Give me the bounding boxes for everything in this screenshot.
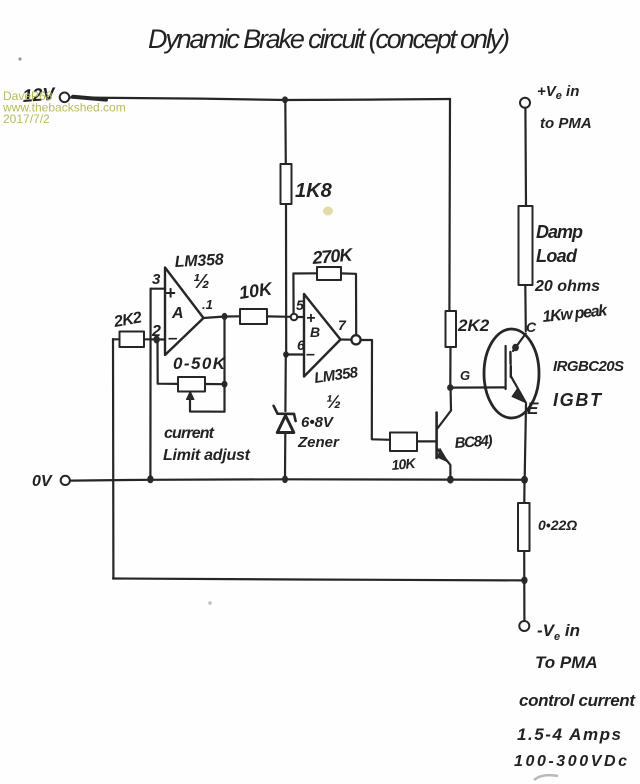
- zener D1 triangle: [277, 416, 294, 433]
- wire 2K2 right lead to pin2: [144, 338, 165, 340]
- svg-text:2K2: 2K2: [457, 316, 490, 335]
- wire bottom return: [113, 579, 524, 581]
- pot wiper arrowhead: [186, 392, 194, 400]
- svg-text:Limit adjust: Limit adjust: [163, 447, 251, 464]
- wire emitter node to 0.22: [523, 480, 525, 503]
- IGBT Q1 gate bar: [505, 346, 507, 389]
- svg-text:To PMA: To PMA: [535, 653, 598, 672]
- wire 10K to pin5: [267, 315, 291, 318]
- svg-text:C: C: [526, 319, 537, 335]
- node bottom wire junction: [521, 577, 527, 585]
- wire pin7 output right and down: [361, 340, 390, 440]
- wire pin3 lead: [151, 288, 165, 290]
- wire 2K2 to gate node: [449, 347, 451, 385]
- svg-text:3: 3: [152, 271, 161, 288]
- resistor 10K top: [240, 309, 267, 324]
- IGBT collector blob: [512, 344, 519, 352]
- node 0V igbt emitter: [521, 476, 528, 484]
- svg-text:½: ½: [326, 392, 341, 412]
- wire pin1 output: [204, 317, 225, 319]
- potentiometer 0-50K: [178, 377, 205, 392]
- wire pin6: [286, 353, 304, 355]
- svg-text:IRGBC20S: IRGBC20S: [553, 358, 624, 375]
- svg-text:0-50K: 0-50K: [173, 354, 227, 373]
- svg-text:2: 2: [151, 323, 161, 340]
- svg-text:.1: .1: [202, 297, 213, 312]
- node pin7 output circle: [351, 335, 360, 344]
- speck mid left: [208, 601, 212, 605]
- svg-text:Load: Load: [536, 246, 578, 266]
- svg-text:Zener: Zener: [297, 434, 340, 451]
- terminal 12V open circle: [60, 93, 70, 103]
- wire pot right lead: [205, 383, 225, 385]
- wire emitter down to 0V: [525, 405, 526, 478]
- svg-text:0•22Ω: 0•22Ω: [538, 517, 577, 533]
- svg-text:100-300VDc: 100-300VDc: [514, 753, 627, 770]
- node 0V x150: [147, 475, 153, 483]
- terminal -Ve open circle: [519, 621, 529, 631]
- terminal 0V open circle: [61, 476, 70, 485]
- wire pot right vertical up to pin1: [223, 317, 225, 385]
- svg-text:–: –: [168, 328, 178, 347]
- svg-text:–: –: [306, 346, 315, 363]
- node pin2 junction: [153, 336, 159, 344]
- svg-text:control current: control current: [519, 691, 636, 710]
- wire top rail thick blob: [73, 97, 106, 100]
- terminal +Ve open circle: [520, 98, 530, 108]
- wire right top vertical to 2K2: [448, 99, 451, 311]
- svg-text:1.5-4 Amps: 1.5-4 Amps: [517, 725, 621, 744]
- svg-text:5: 5: [296, 297, 304, 313]
- IGBT collector diagonal: [513, 334, 526, 352]
- wire zener top lead: [284, 355, 287, 412]
- transistor Q2 BC847 base bar: [435, 413, 438, 459]
- node pin1 junction: [222, 313, 228, 320]
- wire top rail 12V: [71, 98, 451, 101]
- svg-text:E: E: [527, 399, 539, 418]
- wire damp load to collector: [524, 285, 527, 331]
- svg-text:2K2: 2K2: [112, 309, 144, 331]
- smudge bottom pencil mark: [534, 775, 558, 780]
- wire 1K8 top lead: [284, 100, 287, 164]
- svg-text:B: B: [310, 324, 320, 340]
- IGBT inner bar: [509, 352, 512, 377]
- IGBT emitter diagonal: [511, 376, 526, 403]
- node pin6 junction: [283, 351, 289, 357]
- IGBT Q1 body circle: [484, 329, 539, 418]
- wire pin1 to 10K: [228, 315, 241, 317]
- speck upper left: [18, 57, 21, 60]
- wire pin3 vertical down to 0V: [149, 289, 151, 479]
- node junction top (1K8 tap): [282, 96, 288, 103]
- svg-text:½: ½: [193, 271, 210, 293]
- svg-text:+: +: [165, 283, 176, 303]
- node pin5 circle: [291, 314, 298, 321]
- resistor 0.22 ohm: [518, 503, 530, 551]
- svg-text:7: 7: [338, 317, 347, 333]
- node 0V bc847: [447, 476, 454, 484]
- op-amp U1A triangle: [165, 268, 204, 356]
- svg-text:G: G: [460, 368, 470, 383]
- transistor Q2 emitter: [437, 448, 451, 478]
- svg-text:2017/7/2: 2017/7/2: [3, 112, 50, 126]
- svg-text:Dynamic Brake circuit (concept: Dynamic Brake circuit (concept only): [148, 24, 510, 54]
- wire 1K8 bottom lead down to pin6 node: [285, 204, 287, 354]
- svg-text:1K8: 1K8: [295, 180, 333, 202]
- svg-text:1Kw peak: 1Kw peak: [542, 302, 610, 326]
- svg-text:+Ve in: +Ve in: [537, 83, 579, 102]
- transistor Q2 collector: [437, 391, 451, 430]
- svg-text:6: 6: [297, 337, 305, 353]
- wire 270K feedback left: [293, 273, 317, 313]
- resistor 270K: [317, 267, 341, 280]
- wire zener bottom lead: [284, 434, 286, 479]
- svg-text:-Ve in: -Ve in: [537, 621, 580, 643]
- wire 0.22 down to -Ve terminal: [523, 551, 525, 621]
- svg-text:6•8V: 6•8V: [301, 414, 335, 431]
- svg-text:270K: 270K: [311, 244, 356, 268]
- wire 2K2 left lead: [113, 338, 120, 340]
- wire pin7 apex stub: [341, 338, 352, 340]
- svg-text:10K: 10K: [391, 455, 417, 473]
- svg-text:0V: 0V: [32, 473, 53, 490]
- wire left rail: [112, 339, 115, 579]
- svg-text:A: A: [171, 305, 184, 322]
- op-amp U1B triangle: [304, 294, 341, 377]
- pot wiper arm: [190, 386, 225, 412]
- svg-text:LM358: LM358: [313, 364, 360, 387]
- svg-text:Damp: Damp: [536, 222, 583, 242]
- svg-text:IGBT: IGBT: [553, 390, 603, 410]
- svg-text:current: current: [164, 425, 215, 442]
- wire gate lead: [453, 386, 505, 388]
- resistor 10K base: [390, 433, 417, 452]
- node 0V zener: [282, 476, 288, 484]
- wire pot left vertical from pin2 node: [158, 341, 179, 384]
- zener D1 cathode bar: [274, 406, 296, 421]
- svg-text:to PMA: to PMA: [540, 115, 592, 132]
- wire +Ve vertical to damp load: [524, 108, 527, 206]
- stain yellow fleck: [323, 207, 333, 216]
- resistor 2K2 right: [446, 311, 457, 347]
- wire pin5 stub: [297, 316, 304, 318]
- svg-text:LM358: LM358: [174, 251, 224, 271]
- svg-text:20 ohms: 20 ohms: [534, 278, 600, 295]
- resistor 1K8: [281, 164, 292, 204]
- svg-text:10K: 10K: [238, 278, 275, 303]
- node G junction: [447, 384, 453, 391]
- resistor damp load: [519, 206, 533, 285]
- wire 10K to base: [417, 440, 437, 442]
- wire 270K right to output: [341, 273, 356, 334]
- wire 0V rail: [71, 479, 525, 480]
- transistor Q2 emitter arrowhead: [438, 449, 448, 462]
- IGBT emitter arrowhead: [512, 389, 526, 403]
- resistor 2K2 left: [120, 332, 145, 348]
- svg-text:BC84): BC84): [454, 432, 493, 452]
- node pot right junction: [222, 381, 228, 388]
